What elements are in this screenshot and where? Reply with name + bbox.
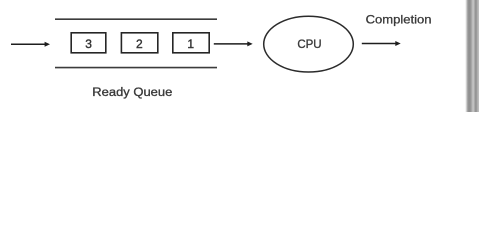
wire: dispatch arrow queue to CPU xyxy=(214,41,253,46)
process box 1 xyxy=(173,33,209,53)
process box 2 xyxy=(121,33,157,53)
svg-text:CPU: CPU xyxy=(297,37,321,51)
ready queue bottom line xyxy=(55,67,217,69)
process box 3 xyxy=(71,33,106,53)
svg-text:3: 3 xyxy=(85,37,92,51)
svg-text:Ready Queue: Ready Queue xyxy=(92,87,172,99)
wire: completion arrow out of CPU xyxy=(362,41,401,46)
wire: arrival arrow into ready queue xyxy=(11,42,50,47)
ready queue top line xyxy=(55,18,217,20)
svg-text:1: 1 xyxy=(187,37,194,51)
svg-text:2: 2 xyxy=(136,37,143,51)
right edge vertical scrollbar / window border xyxy=(465,0,479,112)
svg-text:Completion: Completion xyxy=(366,12,432,26)
CPU ellipse xyxy=(264,16,354,72)
